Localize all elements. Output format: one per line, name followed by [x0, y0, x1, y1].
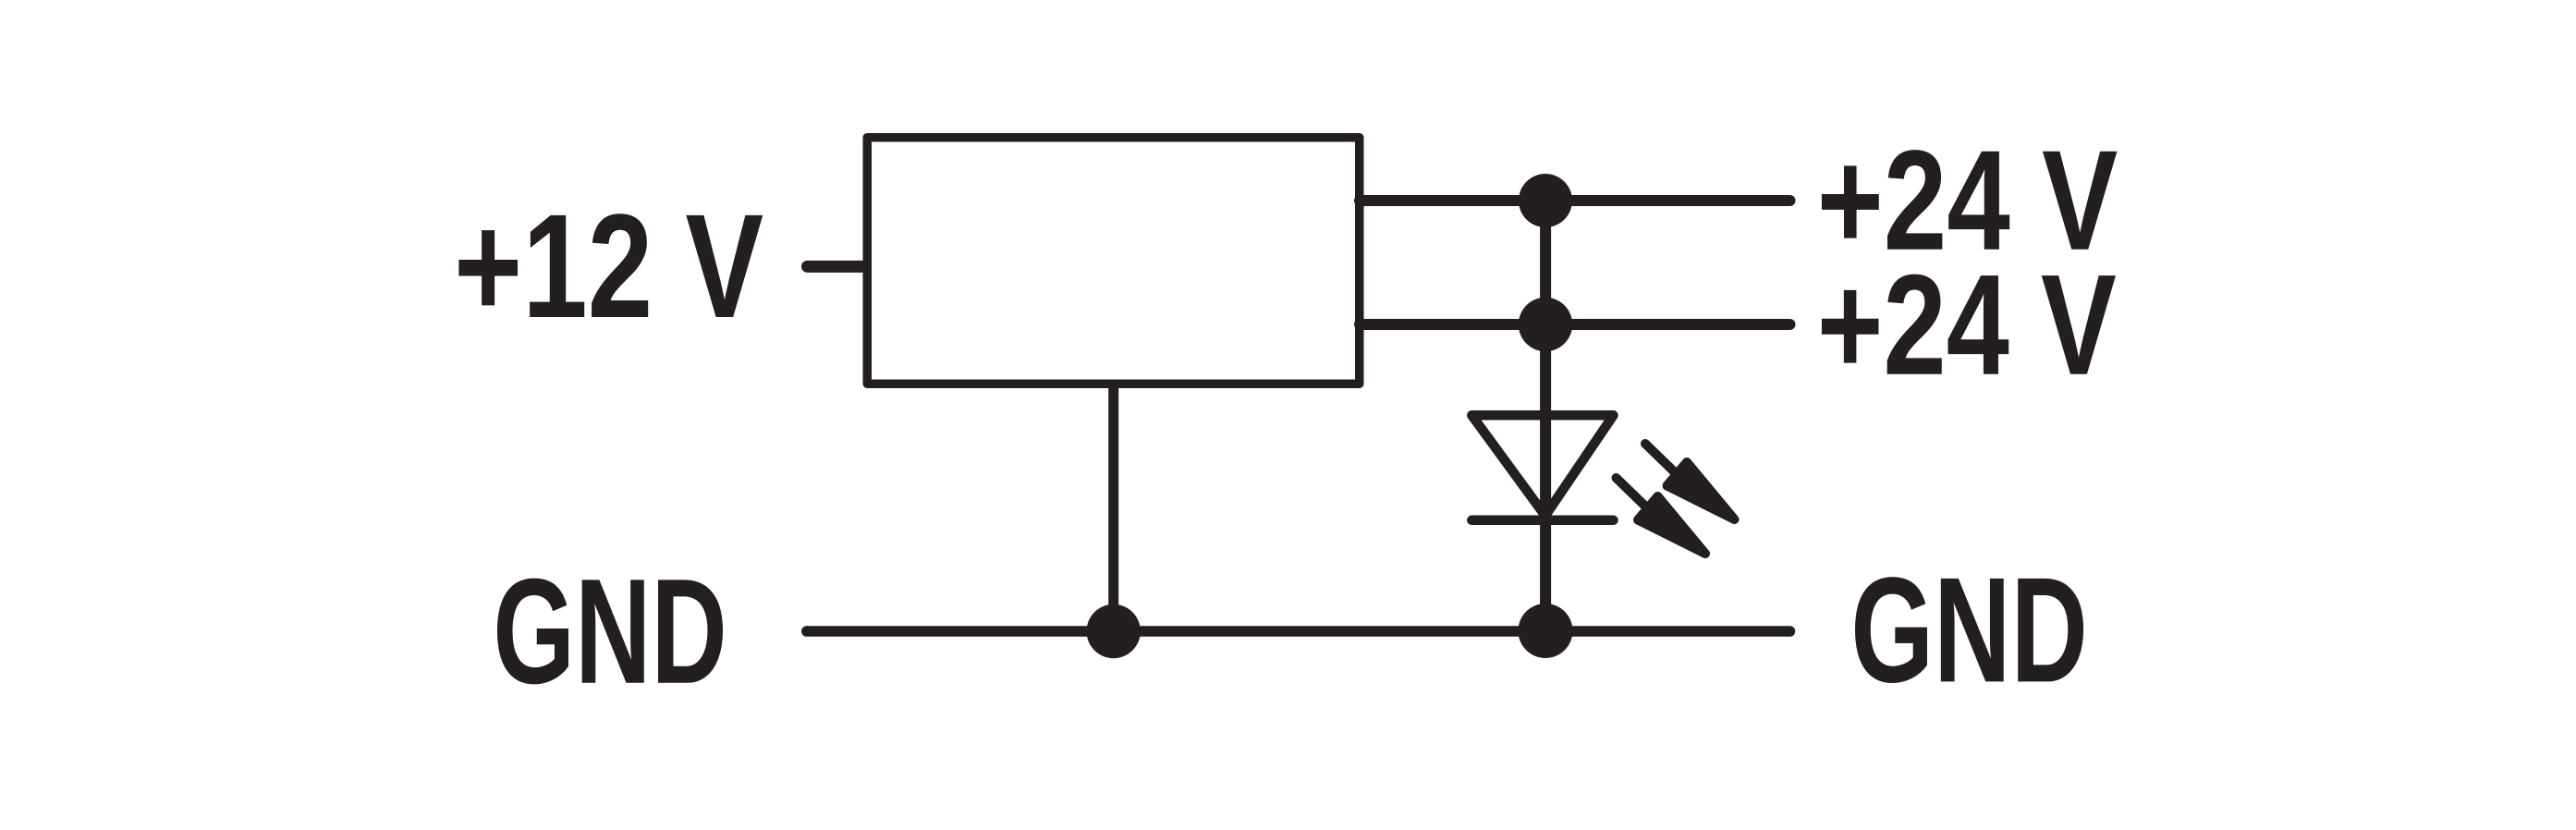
LED D1 light arrow 2	[1617, 478, 1706, 554]
LED D1 cathode bar	[1471, 516, 1613, 526]
wire block bottom to ground	[1108, 384, 1118, 631]
junction node B on output 2	[1519, 298, 1572, 351]
wire output 1 (+24 V top)	[1360, 195, 1790, 206]
block U1 DC/DC converter	[867, 138, 1360, 384]
LED D1 light arrow 1	[1645, 444, 1735, 519]
junction node C ground below block	[1087, 604, 1141, 658]
junction node A on output 1	[1519, 174, 1572, 227]
wire vertical bus to LED and GND	[1540, 201, 1551, 631]
junction node D ground below LED	[1519, 604, 1573, 658]
wire output 2 (+24 V bottom)	[1360, 319, 1790, 330]
svg-text:+24 V: +24 V	[1817, 245, 2117, 405]
wire ground rail	[807, 626, 1790, 637]
svg-text:GND: GND	[493, 548, 727, 715]
wire +12V input	[808, 261, 866, 273]
LED D1 triangle (anode)	[1471, 415, 1613, 516]
svg-text:+12 V: +12 V	[454, 183, 763, 348]
svg-text:GND: GND	[1850, 546, 2088, 714]
